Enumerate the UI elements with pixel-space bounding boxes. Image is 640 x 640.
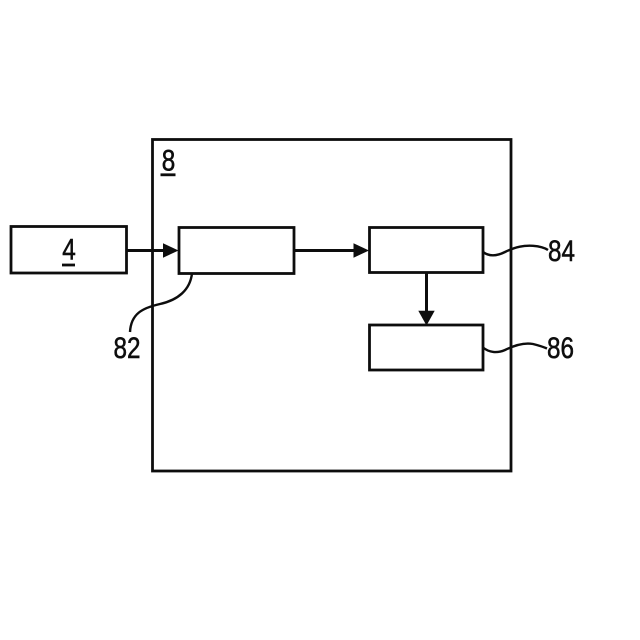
svg-text:4: 4 (62, 232, 76, 266)
svg-text:84: 84 (548, 234, 575, 268)
svg-text:8: 8 (162, 143, 176, 177)
svg-text:82: 82 (113, 331, 140, 365)
svg-text:86: 86 (547, 331, 574, 365)
